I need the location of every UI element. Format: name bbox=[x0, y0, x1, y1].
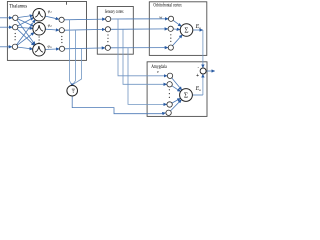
svg-text:Eo: Eo bbox=[195, 24, 202, 30]
svg-text:+: + bbox=[196, 73, 199, 79]
svg-text:Orbitofrontal cortex: Orbitofrontal cortex bbox=[153, 4, 182, 9]
svg-text:φn: φn bbox=[48, 44, 52, 50]
svg-text:v: v bbox=[157, 69, 159, 74]
svg-text:Σ: Σ bbox=[184, 27, 188, 35]
svg-text:Ea: Ea bbox=[195, 86, 202, 92]
svg-text:φ2: φ2 bbox=[48, 23, 52, 29]
svg-text:Amygdala: Amygdala bbox=[151, 65, 167, 70]
svg-text:-: - bbox=[198, 65, 200, 70]
svg-text:φ1: φ1 bbox=[48, 9, 52, 15]
svg-text:Thalamus: Thalamus bbox=[9, 3, 27, 9]
svg-text:Sensory cortex: Sensory cortex bbox=[105, 10, 124, 15]
svg-text:Σ: Σ bbox=[184, 92, 188, 100]
svg-text:w: w bbox=[159, 14, 162, 19]
